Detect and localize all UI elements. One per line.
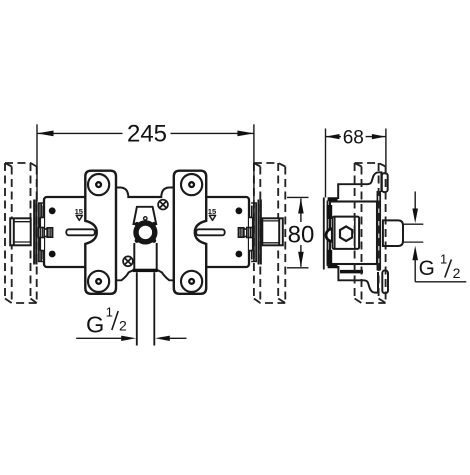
svg-text:15: 15 — [208, 207, 217, 216]
side: back plate bar — [377, 191, 380, 270]
side: top plate arm — [338, 172, 381, 199]
phillips screw lower — [123, 256, 133, 266]
dimension 68 — [326, 129, 386, 198]
side: thread stub lines — [404, 224, 424, 242]
right mounting plate — [174, 171, 206, 294]
side: top mounting tab — [382, 173, 388, 192]
valve housing bar (front view) — [44, 197, 249, 267]
left inlet tail piece — [10, 218, 31, 245]
side: front face lines — [324, 198, 328, 270]
upper spout tube (wide part) — [134, 243, 156, 269]
spout collar bar (dark) — [133, 269, 158, 272]
svg-text:2: 2 — [119, 318, 127, 334]
centre body top dip outline — [116, 188, 174, 198]
wall strip left (front view, dashed) — [5, 163, 37, 303]
right outlet tail piece — [262, 218, 283, 245]
left nut and washer — [39, 228, 53, 238]
side: outlet spigot — [383, 220, 403, 246]
svg-text:1: 1 — [440, 252, 447, 267]
side: cartridge box — [333, 217, 360, 249]
svg-text:G: G — [419, 257, 435, 280]
centre body block (front view) — [116, 188, 174, 281]
side: bottom plate arm — [338, 266, 378, 293]
svg-text:80: 80 — [288, 221, 315, 248]
side: retaining clips — [327, 205, 333, 219]
side: spindle end (semicircle) — [326, 229, 332, 242]
left housing edge tab — [40, 217, 44, 250]
side: hexagon — [340, 226, 352, 241]
svg-text:68: 68 — [343, 127, 364, 148]
side: bottom mounting tab — [382, 270, 388, 293]
svg-text:G: G — [86, 311, 104, 337]
housing black dots — [49, 207, 243, 257]
wall strip (side view, dashed, drawn over body) — [355, 163, 386, 303]
dimension 245 — [37, 124, 254, 201]
centre body bottom wavy outline — [116, 270, 174, 280]
side: housing top thick edge — [328, 197, 338, 201]
bottom G1/2 dimension arrows — [76, 337, 186, 339]
cartridge tower (trapezoid) — [134, 207, 157, 224]
side G1/2 label — [419, 252, 461, 281]
left mounting plate — [85, 171, 116, 294]
depth mark 15 left — [75, 207, 84, 221]
phillips screw upper — [158, 200, 168, 210]
side: bottom arm upper thick edge — [340, 270, 363, 273]
svg-text:15: 15 — [75, 207, 84, 216]
plate screw holes — [88, 174, 202, 292]
side: housing bottom thick edge — [328, 264, 338, 268]
lower spout tube — [137, 272, 155, 345]
svg-text:1: 1 — [106, 305, 113, 320]
side: housing box — [330, 202, 377, 265]
centre port rings — [135, 222, 157, 243]
right housing edge tab — [249, 217, 253, 250]
tower nipple — [144, 217, 147, 220]
left flange stack — [34, 200, 44, 265]
side G1/2 arrows — [415, 192, 466, 282]
depth mark 15 right — [208, 207, 217, 221]
left slot bar — [66, 229, 95, 235]
dimension 80 — [287, 197, 309, 267]
svg-text:245: 245 — [127, 121, 167, 148]
right nut and washer — [238, 228, 252, 238]
right flange stack — [251, 200, 261, 265]
right slot bar — [196, 229, 225, 235]
wall strip right (front view, dashed) — [254, 163, 285, 303]
bottom G1/2 label — [86, 305, 127, 338]
svg-text:2: 2 — [453, 265, 461, 281]
